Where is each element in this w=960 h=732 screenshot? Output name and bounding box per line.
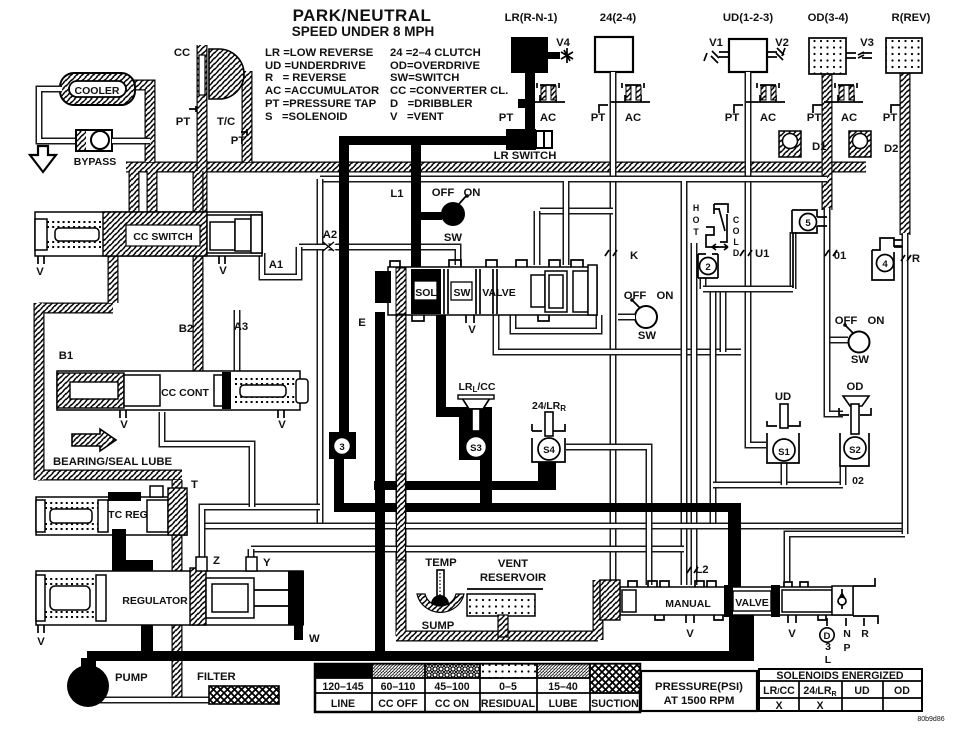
svg-text:L: L: [733, 237, 739, 247]
svg-text:VENT: VENT: [498, 558, 528, 570]
svg-text:A1: A1: [269, 259, 283, 271]
svg-text:X: X: [775, 700, 782, 712]
svg-text:UD: UD: [775, 391, 791, 403]
svg-text:UD: UD: [854, 685, 870, 697]
svg-text:FILTER: FILTER: [197, 671, 236, 683]
svg-text:SUCTION: SUCTION: [591, 698, 639, 710]
svg-text:PT: PT: [176, 116, 191, 128]
svg-text:CC CONT: CC CONT: [161, 387, 209, 399]
svg-text:SW: SW: [444, 232, 463, 244]
svg-text:D2: D2: [884, 143, 898, 155]
svg-text:CC SWITCH: CC SWITCH: [133, 231, 193, 243]
svg-text:D: D: [733, 248, 739, 258]
svg-text:60–110: 60–110: [381, 681, 416, 693]
svg-text:LRL/CC: LRL/CC: [459, 381, 496, 394]
svg-text:RESERVOIR: RESERVOIR: [480, 572, 546, 584]
svg-text:OFF: OFF: [432, 187, 455, 199]
svg-text:N: N: [843, 628, 851, 640]
svg-text:E: E: [358, 317, 366, 329]
svg-text:4: 4: [882, 259, 888, 270]
svg-text:V: V: [468, 324, 476, 336]
svg-text:OD(3-4): OD(3-4): [808, 12, 849, 24]
svg-text:OD=OVERDRIVE: OD=OVERDRIVE: [390, 60, 481, 72]
svg-text:120–145: 120–145: [322, 681, 363, 693]
svg-text:PT: PT: [591, 112, 606, 124]
svg-text:PT: PT: [883, 112, 898, 124]
svg-text:SPEED UNDER 8 MPH: SPEED UNDER 8 MPH: [292, 24, 435, 39]
svg-text:5: 5: [805, 218, 811, 229]
svg-text:BYPASS: BYPASS: [74, 156, 116, 168]
svg-text:15–40: 15–40: [548, 681, 578, 693]
svg-text:V =VENT: V =VENT: [390, 111, 444, 123]
svg-text:Y: Y: [263, 557, 271, 569]
svg-text:A2: A2: [323, 229, 337, 241]
svg-text:K: K: [630, 250, 639, 262]
svg-text:LR SWITCH: LR SWITCH: [494, 150, 557, 162]
svg-text:S1: S1: [778, 447, 790, 458]
svg-text:V: V: [36, 266, 44, 278]
svg-text:LUBE: LUBE: [549, 698, 578, 710]
svg-text:PT: PT: [231, 135, 246, 147]
svg-text:LR/CC: LR/CC: [763, 685, 795, 697]
svg-text:T: T: [693, 227, 699, 237]
svg-text:H: H: [693, 203, 699, 213]
svg-text:SW: SW: [638, 330, 657, 342]
svg-text:02: 02: [852, 475, 864, 487]
svg-text:RESIDUAL: RESIDUAL: [481, 698, 536, 710]
svg-text:O: O: [733, 226, 740, 236]
svg-text:AC: AC: [540, 112, 556, 124]
svg-text:COOLER: COOLER: [75, 85, 120, 97]
svg-text:UD =UNDERDRIVE: UD =UNDERDRIVE: [265, 60, 366, 72]
svg-text:R = REVERSE: R = REVERSE: [265, 72, 347, 84]
svg-text:SW: SW: [851, 354, 870, 366]
svg-text:TC REG: TC REG: [108, 509, 148, 521]
svg-text:P: P: [843, 642, 850, 654]
svg-text:A3: A3: [234, 321, 248, 333]
svg-text:3: 3: [825, 641, 831, 653]
svg-text:OD: OD: [894, 685, 910, 697]
svg-text:LR =LOW REVERSE: LR =LOW REVERSE: [265, 47, 374, 59]
svg-text:D =DRIBBLER: D =DRIBBLER: [390, 98, 473, 110]
svg-text:S2: S2: [849, 445, 861, 456]
svg-text:R: R: [861, 628, 869, 640]
svg-text:V3: V3: [860, 37, 874, 49]
svg-text:AT 1500 RPM: AT 1500 RPM: [664, 695, 735, 707]
svg-text:S3: S3: [470, 443, 482, 454]
svg-text:ON: ON: [464, 187, 481, 199]
svg-text:80b9d86: 80b9d86: [917, 716, 944, 723]
svg-text:OFF: OFF: [624, 290, 647, 302]
svg-text:L1: L1: [390, 188, 403, 200]
svg-text:SW: SW: [454, 287, 471, 299]
svg-text:PUMP: PUMP: [115, 672, 148, 684]
svg-text:LR(R-N-1): LR(R-N-1): [505, 12, 558, 24]
svg-text:CC ON: CC ON: [435, 698, 469, 710]
svg-text:VALVE: VALVE: [735, 597, 768, 609]
svg-text:LINE: LINE: [331, 698, 355, 710]
svg-text:O: O: [693, 215, 700, 225]
svg-text:L2: L2: [695, 564, 708, 576]
svg-text:AC: AC: [841, 112, 857, 124]
svg-text:V: V: [788, 628, 796, 640]
svg-text:V: V: [120, 419, 128, 431]
svg-text:AC: AC: [760, 112, 776, 124]
svg-text:V: V: [686, 628, 694, 640]
svg-text:45–100: 45–100: [434, 681, 469, 693]
svg-text:S4: S4: [543, 445, 555, 456]
svg-text:OD: OD: [847, 381, 864, 393]
svg-text:W: W: [309, 633, 320, 645]
svg-text:2: 2: [705, 262, 710, 273]
svg-text:PT =PRESSURE TAP: PT =PRESSURE TAP: [265, 98, 377, 110]
svg-text:V1: V1: [709, 37, 723, 49]
svg-text:Z: Z: [213, 555, 220, 567]
svg-text:V: V: [278, 419, 286, 431]
svg-text:UD(1-2-3): UD(1-2-3): [723, 12, 773, 24]
svg-text:MANUAL: MANUAL: [665, 598, 711, 610]
svg-text:V: V: [37, 636, 45, 648]
svg-text:PARK/NEUTRAL: PARK/NEUTRAL: [293, 6, 432, 25]
svg-text:CC =CONVERTER CL.: CC =CONVERTER CL.: [390, 85, 508, 97]
svg-text:V2: V2: [775, 37, 789, 49]
svg-text:V4: V4: [556, 37, 571, 49]
svg-text:3: 3: [339, 442, 344, 453]
svg-text:S =SOLENOID: S =SOLENOID: [265, 111, 348, 123]
svg-text:B2: B2: [179, 323, 193, 335]
svg-text:SUMP: SUMP: [422, 620, 455, 632]
svg-text:0–5: 0–5: [499, 681, 517, 693]
svg-text:R: R: [912, 253, 920, 265]
svg-text:VALVE: VALVE: [482, 287, 515, 299]
svg-text:X: X: [816, 700, 823, 712]
svg-text:L: L: [825, 654, 832, 666]
svg-text:U1: U1: [755, 248, 769, 260]
svg-text:24(2-4): 24(2-4): [600, 12, 637, 24]
svg-text:PRESSURE(PSI): PRESSURE(PSI): [655, 681, 743, 693]
svg-text:TEMP: TEMP: [425, 557, 457, 569]
svg-text:B1: B1: [59, 350, 73, 362]
svg-text:D1: D1: [812, 141, 826, 153]
svg-text:V: V: [219, 265, 227, 277]
svg-text:SOLENOIDS ENERGIZED: SOLENOIDS ENERGIZED: [776, 670, 903, 682]
svg-text:ON: ON: [657, 290, 674, 302]
svg-text:SOL: SOL: [415, 287, 437, 299]
svg-text:C: C: [733, 215, 740, 225]
svg-text:CC: CC: [174, 47, 190, 59]
svg-text:BEARING/SEAL LUBE: BEARING/SEAL LUBE: [53, 456, 173, 468]
svg-text:PT: PT: [725, 112, 740, 124]
svg-text:REGULATOR: REGULATOR: [122, 595, 188, 607]
svg-text:T: T: [191, 479, 198, 491]
svg-text:R(REV): R(REV): [892, 12, 931, 24]
svg-text:AC =ACCUMULATOR: AC =ACCUMULATOR: [265, 85, 379, 97]
svg-text:CC OFF: CC OFF: [378, 698, 418, 710]
svg-text:24 =2–4 CLUTCH: 24 =2–4 CLUTCH: [390, 47, 481, 59]
svg-text:SW=SWITCH: SW=SWITCH: [390, 72, 459, 84]
svg-text:ON: ON: [868, 315, 885, 327]
svg-text:PT: PT: [499, 112, 514, 124]
svg-text:T/C: T/C: [217, 116, 235, 128]
svg-text:AC: AC: [625, 112, 641, 124]
svg-text:PT: PT: [807, 112, 822, 124]
